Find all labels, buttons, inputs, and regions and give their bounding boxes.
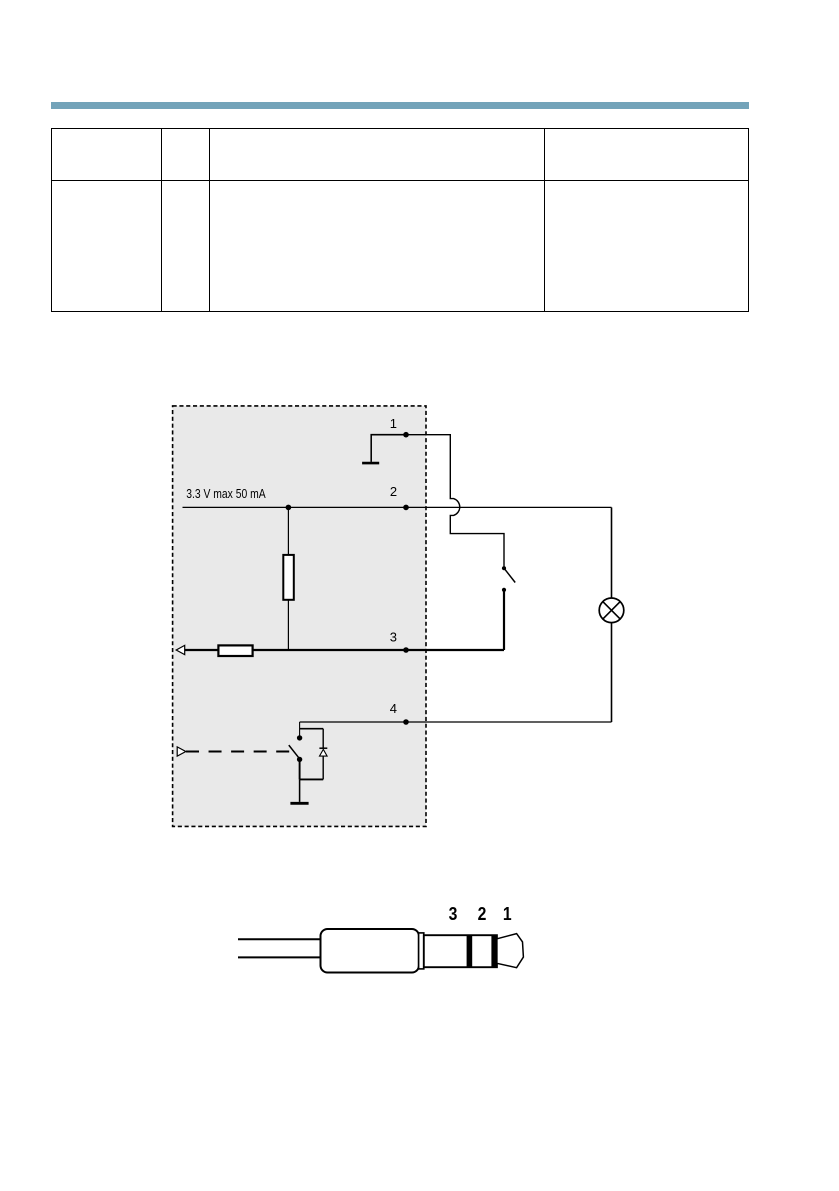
arrowhead pin3 output (open triangle) bbox=[176, 645, 185, 654]
svg-text:3: 3 bbox=[449, 903, 458, 925]
switch Q1 top contact dot bbox=[297, 735, 302, 740]
wire bottom rail to diode D1 bbox=[300, 778, 324, 780]
table column divider 3 bbox=[544, 128, 545, 312]
wire resistor R1 to pin3 rail bbox=[287, 600, 289, 650]
table column divider 2 bbox=[209, 128, 210, 312]
switch Q1 bottom contact dot bbox=[297, 757, 302, 762]
node pin 3 junction dot bbox=[403, 647, 409, 653]
jack sleeve shaft bbox=[424, 935, 497, 967]
table header row divider bbox=[51, 180, 749, 181]
wire pin4 down to transistor switch bbox=[299, 722, 301, 736]
wire diode D1 cathode lead bbox=[322, 729, 324, 748]
ground GND2 bar bbox=[290, 802, 308, 805]
jack collar bbox=[419, 933, 424, 969]
resistor R2 (horizontal series) bbox=[218, 645, 252, 656]
diode D1 cathode bar bbox=[319, 747, 327, 749]
diode D1 triangle bbox=[320, 749, 328, 756]
jack cable conductor bottom bbox=[238, 956, 321, 958]
svg-text:1: 1 bbox=[503, 903, 512, 925]
wire bottom rail to ground GND2 bbox=[299, 779, 301, 802]
svg-text:3.3 V max 50 mA: 3.3 V max 50 mA bbox=[186, 486, 266, 501]
wire pin1 to ground bbox=[371, 435, 406, 462]
switch Q1 blade bbox=[289, 745, 300, 759]
wire pin2 rail to resistor R1 bbox=[287, 507, 289, 555]
svg-text:4: 4 bbox=[390, 701, 397, 716]
wire top rail to diode D1 bbox=[300, 728, 324, 730]
svg-text:2: 2 bbox=[390, 484, 397, 499]
node resistor junction dot on pin2 rail bbox=[286, 505, 292, 511]
arrowhead pin4 input (open triangle) bbox=[177, 747, 186, 756]
svg-text:3: 3 bbox=[390, 629, 397, 644]
wire diode D1 anode lead bbox=[322, 756, 324, 779]
resistor R1 (vertical pull-up) bbox=[283, 555, 294, 600]
teal header divider bar bbox=[51, 102, 749, 109]
wire pin4 rail bbox=[300, 721, 612, 723]
wire dashed control input bbox=[186, 751, 289, 753]
wire switch S1 to pin3 rail bbox=[503, 590, 505, 650]
node pin 2 junction dot bbox=[403, 505, 409, 511]
node pin 1 junction dot bbox=[403, 432, 409, 438]
switch S1 top contact dot bbox=[502, 566, 506, 570]
jack body (handle) bbox=[321, 929, 419, 973]
ground GND1 bar bbox=[362, 462, 379, 465]
wire pin2 rail to lamp L1 bbox=[611, 507, 613, 598]
node pin 4 junction dot bbox=[403, 719, 409, 725]
wire switch Q1 to bottom rail bbox=[299, 759, 301, 779]
svg-text:1: 1 bbox=[390, 416, 397, 431]
jack insulator band 2 bbox=[467, 935, 473, 967]
jack insulator band 1 bbox=[491, 935, 497, 967]
wire pin2 rail 3.3V bbox=[183, 506, 612, 508]
switch S1 bottom contact dot bbox=[502, 588, 506, 592]
wire pin1 hook over pin2 to switch S1 bbox=[406, 435, 504, 567]
dashed device boundary box bbox=[173, 406, 426, 827]
jack cable conductor top bbox=[238, 938, 321, 940]
wire pin3 rail bbox=[184, 649, 505, 651]
jack tip bbox=[497, 934, 524, 968]
svg-text:2: 2 bbox=[478, 903, 487, 925]
wire lamp L1 to pin4 rail bbox=[611, 622, 613, 722]
lamp L1 cross bbox=[603, 602, 620, 619]
table outer border bbox=[51, 128, 749, 312]
switch S1 blade bbox=[504, 568, 515, 582]
table column divider 1 bbox=[161, 128, 162, 312]
lamp L1 circle bbox=[599, 598, 624, 623]
